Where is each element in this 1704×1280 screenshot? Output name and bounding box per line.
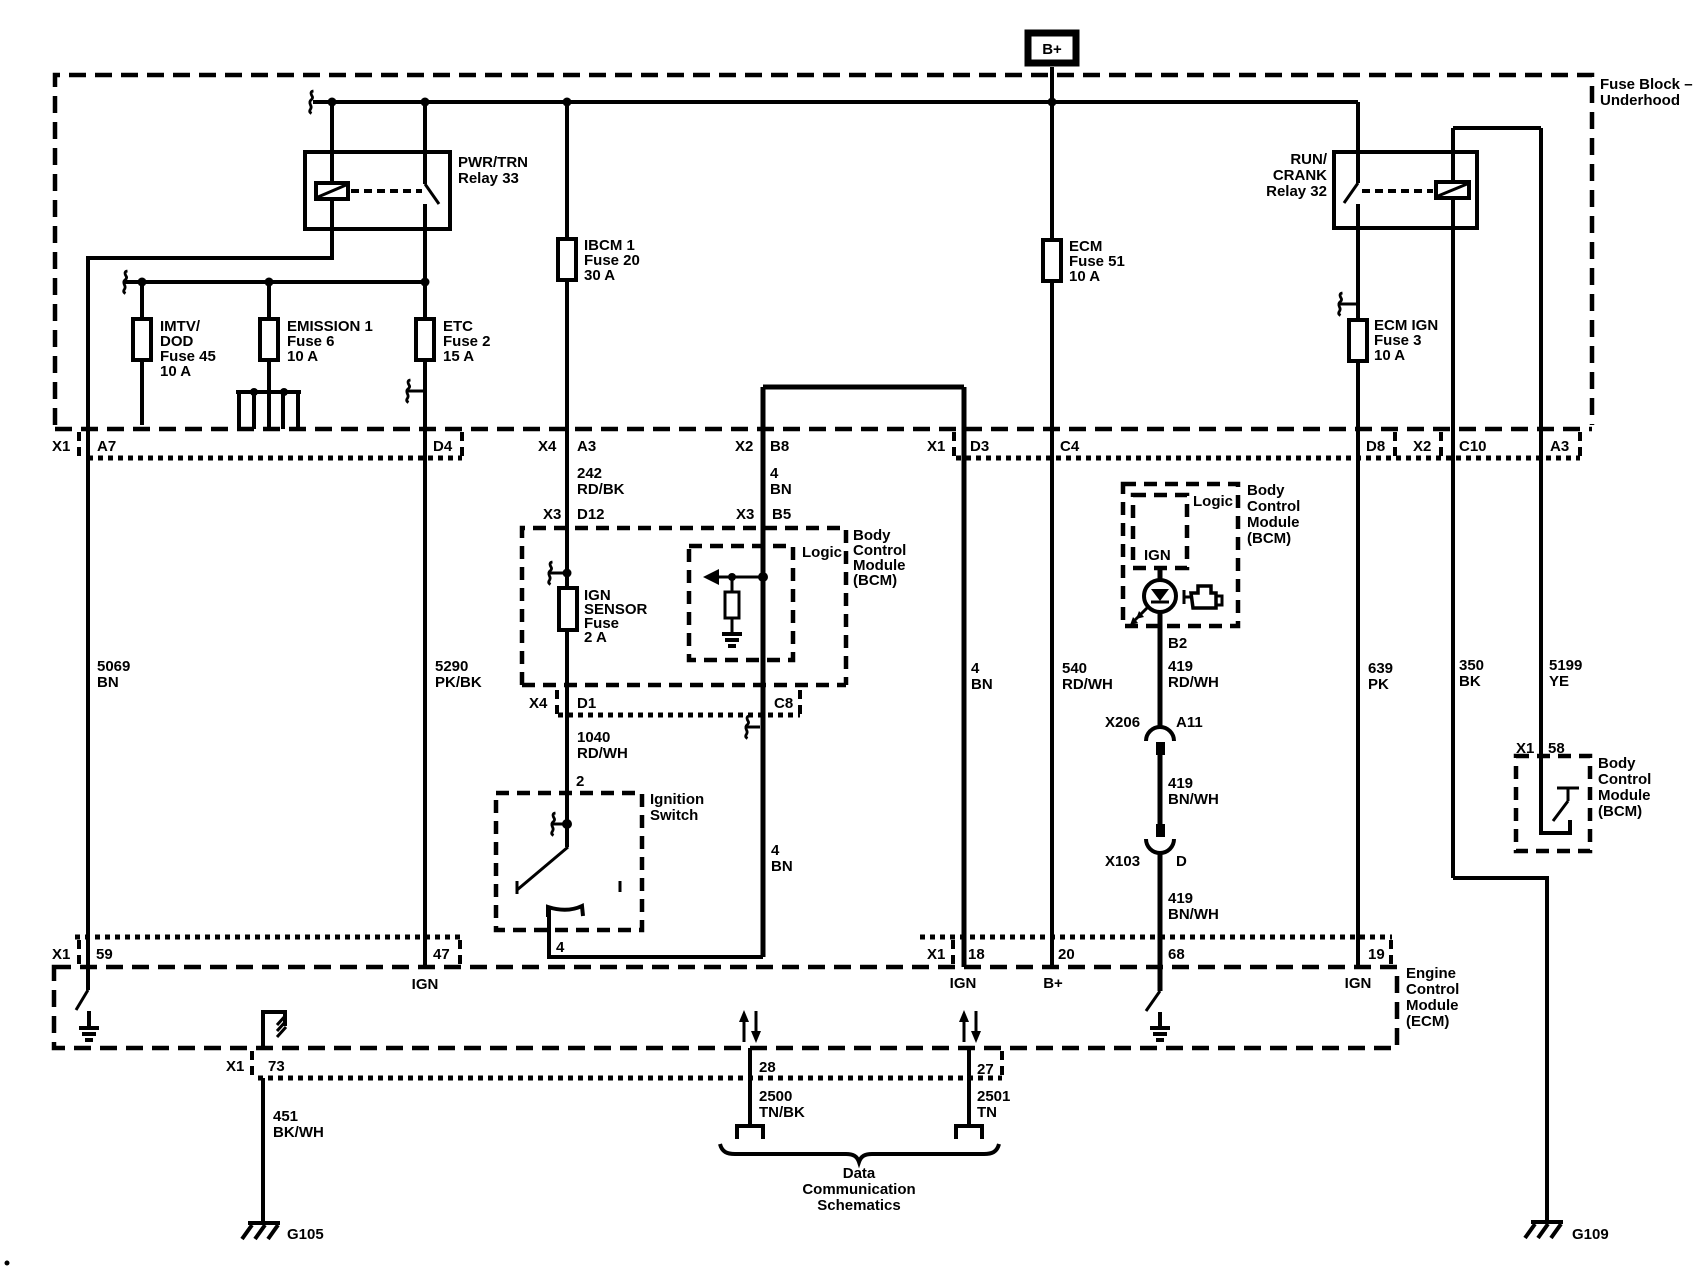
svg-text:RD/WH: RD/WH — [1062, 676, 1113, 693]
svg-text:30 A: 30 A — [584, 267, 615, 284]
curl at C8 — [747, 726, 760, 729]
svg-text:Control: Control — [1406, 981, 1459, 998]
ECM 68 switch to ground — [1146, 991, 1160, 1011]
wire 350 BK C10 to G109 — [1453, 878, 1547, 1223]
svg-text:D4: D4 — [433, 438, 453, 455]
BCM middle dashed box — [522, 528, 846, 685]
ground G109 — [1525, 1222, 1563, 1238]
fuse IGN SENSOR 2A — [565, 630, 569, 793]
svg-text:X4: X4 — [529, 695, 548, 712]
wire 4 BN B8 to BCM B5/C8 — [761, 387, 766, 957]
fuse block connector row bottom edge left — [88, 456, 462, 461]
svg-text:B2: B2 — [1168, 635, 1187, 652]
svg-text:X2: X2 — [735, 438, 753, 455]
svg-text:Body: Body — [1247, 482, 1285, 499]
svg-text:419: 419 — [1168, 658, 1193, 675]
ignition switch blade — [517, 847, 568, 894]
svg-text:5069: 5069 — [97, 658, 130, 675]
connector separators row 1 — [79, 432, 1580, 458]
relay K33 coil — [330, 102, 334, 183]
svg-text:2: 2 — [576, 773, 584, 790]
svg-text:Module: Module — [1247, 514, 1300, 531]
svg-text:X1: X1 — [226, 1058, 244, 1075]
wire 2501 TN serial data — [967, 1048, 971, 1126]
svg-text:D8: D8 — [1366, 438, 1385, 455]
svg-text:5290: 5290 — [435, 658, 468, 675]
svg-text:47: 47 — [433, 946, 450, 963]
fuse F20 IBCM 1 — [565, 102, 569, 588]
svg-text:BN: BN — [971, 676, 993, 693]
wire B5 through logic box — [761, 544, 766, 662]
svg-text:BK/WH: BK/WH — [273, 1124, 324, 1141]
relay K32 switch — [1356, 102, 1360, 183]
svg-text:G109: G109 — [1572, 1226, 1609, 1243]
fuse F51 ECM — [1050, 102, 1054, 967]
svg-text:5199: 5199 — [1549, 657, 1582, 674]
svg-text:4: 4 — [971, 660, 980, 677]
ECM connector row top dotted — [75, 935, 1392, 940]
svg-text:X1: X1 — [927, 946, 945, 963]
svg-text:Engine: Engine — [1406, 965, 1456, 982]
logic input arrow — [716, 576, 763, 579]
wire 419 BN/WH X206 to X103 — [1158, 755, 1163, 824]
ECM dashed box — [54, 967, 1397, 1048]
node junction PWR/TRN switch — [421, 98, 430, 107]
ECM case ground to G105 — [263, 1012, 285, 1048]
relay K32 RUN/CRANK box — [1334, 152, 1477, 228]
svg-text:Data: Data — [843, 1165, 876, 1182]
indicator lamp U-IGN — [1158, 568, 1163, 580]
svg-text:X1: X1 — [52, 438, 70, 455]
svg-text:Body: Body — [1598, 755, 1636, 772]
svg-text:419: 419 — [1168, 890, 1193, 907]
svg-text:Logic: Logic — [1193, 493, 1233, 510]
svg-text:10 A: 10 A — [160, 363, 191, 380]
svg-text:Schematics: Schematics — [817, 1197, 900, 1214]
svg-text:639: 639 — [1368, 660, 1393, 677]
BCM right dashed box — [1123, 484, 1238, 626]
svg-text:Module: Module — [1406, 997, 1459, 1014]
svg-text:BN/WH: BN/WH — [1168, 906, 1219, 923]
wire fuse sub-bus from relay K33 switch output — [125, 280, 425, 284]
multi-terminal comb under fuse F6 — [236, 392, 301, 429]
engine icon — [1184, 590, 1191, 604]
BCM 58 internal switch — [1541, 756, 1570, 833]
svg-text:B8: B8 — [770, 438, 789, 455]
ECM 59 switch to ground — [86, 967, 90, 990]
node junction IBCM fuse — [563, 98, 572, 107]
svg-text:Relay 33: Relay 33 — [458, 170, 519, 187]
svg-text:4: 4 — [556, 939, 565, 956]
svg-text:Fuse Block –: Fuse Block – — [1600, 76, 1693, 93]
svg-text:A11: A11 — [1176, 714, 1203, 731]
svg-text:4: 4 — [770, 465, 779, 482]
svg-text:Logic: Logic — [802, 544, 842, 561]
logic box middle — [689, 546, 793, 660]
svg-text:Switch: Switch — [650, 807, 698, 824]
svg-text:C8: C8 — [774, 695, 793, 712]
svg-text:C4: C4 — [1060, 438, 1080, 455]
wire 4 BN D3 to ECM 18 — [962, 387, 967, 967]
wire relay K32 coil to A3 feed — [1453, 128, 1541, 756]
svg-text:419: 419 — [1168, 775, 1193, 792]
serial data arrows pin 27 — [964, 1011, 976, 1042]
BCM X4 connector row — [558, 713, 800, 718]
svg-text:X3: X3 — [543, 506, 561, 523]
svg-text:X206: X206 — [1105, 714, 1140, 731]
relay K32 coil — [1451, 128, 1455, 182]
svg-text:IGN: IGN — [950, 975, 977, 992]
svg-text:242: 242 — [577, 465, 602, 482]
svg-text:X1: X1 — [927, 438, 945, 455]
svg-text:BN/WH: BN/WH — [1168, 791, 1219, 808]
svg-text:2501: 2501 — [977, 1088, 1010, 1105]
connector separators ECM row — [79, 940, 1391, 966]
svg-text:(BCM): (BCM) — [1598, 803, 1642, 820]
logic box right — [1133, 495, 1187, 568]
relay K33 switch — [423, 102, 427, 184]
wire internal bridge B8 to D3 — [763, 385, 964, 390]
resistor to ground in logic — [728, 573, 736, 581]
svg-text:18: 18 — [968, 946, 985, 963]
svg-text:BN: BN — [770, 481, 792, 498]
svg-text:B+: B+ — [1043, 975, 1063, 992]
svg-text:Relay 32: Relay 32 — [1266, 183, 1327, 200]
wire B+ drop to bus — [1050, 67, 1054, 102]
svg-text:IGN: IGN — [1345, 975, 1372, 992]
fuse F3 ECM IGN — [1349, 320, 1367, 361]
svg-text:X4: X4 — [538, 438, 557, 455]
wire ignition switch pin 4 to C8 — [549, 907, 763, 957]
svg-text:X3: X3 — [736, 506, 754, 523]
wire 451 BK/WH 73 to G105 — [261, 1078, 265, 1223]
svg-text:Underhood: Underhood — [1600, 92, 1680, 109]
svg-text:BN: BN — [97, 674, 119, 691]
fuse F45 IMTV/DOD — [140, 282, 144, 425]
svg-text:(BCM): (BCM) — [1247, 530, 1291, 547]
svg-text:2 A: 2 A — [584, 629, 607, 646]
fuse block underhood dashed enclosure — [55, 75, 1592, 425]
svg-text:CRANK: CRANK — [1273, 167, 1327, 184]
svg-text:PWR/TRN: PWR/TRN — [458, 154, 528, 171]
svg-text:D: D — [1176, 853, 1187, 870]
svg-text:540: 540 — [1062, 660, 1087, 677]
ignition switch input contact — [565, 793, 569, 847]
svg-text:YE: YE — [1549, 673, 1569, 690]
svg-text:15 A: 15 A — [443, 348, 474, 365]
fuse F2 ETC — [416, 319, 434, 360]
relay K32 link dashes — [1362, 189, 1433, 193]
ECM lower connector row — [258, 1076, 1002, 1081]
svg-text:IGN: IGN — [412, 976, 439, 993]
svg-text:BN: BN — [771, 858, 793, 875]
wire 2500 TN/BK serial data — [748, 1048, 752, 1126]
svg-text:10 A: 10 A — [1374, 347, 1405, 364]
svg-text:Control: Control — [1247, 498, 1300, 515]
svg-text:B+: B+ — [1042, 41, 1062, 58]
ground logic — [722, 634, 742, 646]
wire 419 BN/WH X103 to ECM 68 — [1158, 852, 1163, 991]
node junction logic input — [758, 572, 768, 582]
svg-text:(ECM): (ECM) — [1406, 1013, 1449, 1030]
svg-text:X1: X1 — [52, 946, 70, 963]
svg-text:BK: BK — [1459, 673, 1481, 690]
serial data arrows pin 28 — [744, 1011, 756, 1042]
svg-text:A3: A3 — [1550, 438, 1569, 455]
lamp emission arrows — [1134, 607, 1148, 621]
curl at ECM IGN fuse feed — [1340, 303, 1356, 306]
ignition switch output contact — [548, 906, 583, 917]
svg-text:TN/BK: TN/BK — [759, 1104, 805, 1121]
svg-text:73: 73 — [268, 1058, 285, 1075]
svg-text:1040: 1040 — [577, 729, 610, 746]
svg-text:59: 59 — [96, 946, 113, 963]
svg-text:Communication: Communication — [802, 1181, 915, 1198]
svg-text:G105: G105 — [287, 1226, 324, 1243]
svg-text:Module: Module — [1598, 787, 1651, 804]
fuse block internal connection curl at bus start — [310, 91, 314, 114]
svg-text:10 A: 10 A — [287, 348, 318, 365]
svg-text:PK: PK — [1368, 676, 1389, 693]
off-page connector 2500 — [737, 1126, 763, 1139]
relay K33 link dashes — [351, 189, 422, 193]
fuse F6 EMISSION 1 — [267, 282, 271, 392]
svg-text:10 A: 10 A — [1069, 268, 1100, 285]
svg-text:451: 451 — [273, 1108, 298, 1125]
svg-text:20: 20 — [1058, 946, 1075, 963]
svg-text:TN: TN — [977, 1104, 997, 1121]
fuse block connector row bottom edge right — [956, 456, 1580, 461]
ignition switch dashed box — [496, 793, 642, 930]
svg-text:A7: A7 — [97, 438, 116, 455]
ignition switch detent tick — [619, 881, 622, 892]
svg-text:68: 68 — [1168, 946, 1185, 963]
ground G105 — [242, 1223, 280, 1239]
svg-text:RD/WH: RD/WH — [577, 745, 628, 762]
stray period mark bottom left — [5, 1261, 10, 1266]
svg-text:B5: B5 — [772, 506, 791, 523]
svg-text:19: 19 — [1368, 946, 1385, 963]
svg-text:D3: D3 — [970, 438, 989, 455]
svg-text:X103: X103 — [1105, 853, 1140, 870]
svg-text:IGN: IGN — [1144, 547, 1171, 564]
svg-text:D12: D12 — [577, 506, 605, 523]
svg-text:28: 28 — [759, 1059, 776, 1076]
svg-text:4: 4 — [771, 842, 780, 859]
fuse block connector row top edge — [55, 427, 1592, 432]
svg-text:(BCM): (BCM) — [853, 572, 897, 589]
relay K33 PWR/TRN box — [305, 152, 450, 229]
svg-text:RUN/: RUN/ — [1290, 151, 1327, 168]
svg-text:27: 27 — [977, 1061, 994, 1078]
brace data communication — [720, 1144, 999, 1162]
off-page connector 2501 — [956, 1126, 982, 1139]
svg-text:D1: D1 — [577, 695, 596, 712]
node B+ battery feed box — [1028, 33, 1076, 63]
BCM 58 dashed box — [1516, 756, 1590, 851]
svg-text:350: 350 — [1459, 657, 1484, 674]
svg-text:X2: X2 — [1413, 438, 1431, 455]
svg-text:PK/BK: PK/BK — [435, 674, 482, 691]
node junction PWR/TRN coil — [328, 98, 337, 107]
curl at ETC fuse block exit — [408, 390, 424, 393]
svg-text:A3: A3 — [577, 438, 596, 455]
wire main B+ bus — [313, 100, 1358, 104]
svg-text:C10: C10 — [1459, 438, 1487, 455]
node junction B+ / ECM fuse 51 — [1048, 98, 1057, 107]
svg-text:Ignition: Ignition — [650, 791, 704, 808]
svg-text:RD/BK: RD/BK — [577, 481, 625, 498]
svg-text:2500: 2500 — [759, 1088, 792, 1105]
svg-text:RD/WH: RD/WH — [1168, 674, 1219, 691]
svg-text:Control: Control — [1598, 771, 1651, 788]
